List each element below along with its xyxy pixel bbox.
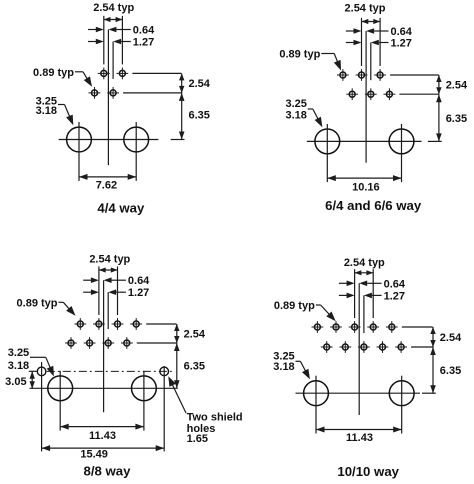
Q3 8/8 way contact hole bottom row 2 xyxy=(84,337,96,349)
Q3 8/8 way label 0.89 typ xyxy=(17,297,58,309)
Q1 4/4 way dim line 2.54 typ with arrows xyxy=(104,17,123,22)
Q4 10/10 way contact hole top row 4 xyxy=(367,321,379,333)
Q2 6/4 and 6/6 way label 3.18 xyxy=(285,109,306,121)
Q4 10/10 way contact hole top row 2 xyxy=(330,321,342,333)
svg-text:1.27: 1.27 xyxy=(128,287,149,299)
Q2 6/4 and 6/6 way contact hole bottom row 3 xyxy=(384,88,396,100)
svg-text:6.35: 6.35 xyxy=(184,361,205,373)
Q4 10/10 way dim 6.35 xyxy=(430,347,436,393)
Q2 6/4 and 6/6 way circle centerline horizontal xyxy=(307,140,422,142)
svg-text:2.54 typ: 2.54 typ xyxy=(344,257,385,269)
Q3 shield hole left xyxy=(37,367,46,376)
Q2 6/4 and 6/6 way mounting hole left xyxy=(315,129,340,154)
svg-text:1.27: 1.27 xyxy=(391,38,412,50)
svg-text:0.64: 0.64 xyxy=(391,26,413,38)
Q3 8/8 way label 2.54 typ xyxy=(89,253,130,265)
svg-text:3.05: 3.05 xyxy=(5,376,26,388)
Q1 4/4 way circle centerline horizontal xyxy=(59,139,159,141)
Q2 6/4 and 6/6 way mounting hole right xyxy=(389,129,414,154)
Q1 4/4 way dim 0.64 left arrow xyxy=(88,27,104,33)
Q1 4/4 way bottom row extension line to right xyxy=(123,92,181,94)
svg-text:0.64: 0.64 xyxy=(128,275,150,287)
Q4 10/10 way contact hole bottom row 1 xyxy=(321,341,333,353)
svg-text:3.18: 3.18 xyxy=(8,360,29,372)
svg-text:1.27: 1.27 xyxy=(133,37,154,49)
Q1 4/4 way label 2.54 right xyxy=(189,78,211,90)
Q2 6/4 and 6/6 way extension line D (hole column) xyxy=(379,18,381,66)
Q3 8/8 way mounting hole left xyxy=(48,376,73,401)
Q1 4/4 way leader 0.89 typ xyxy=(75,72,92,87)
Q3 8/8 way right circle vertical centerline xyxy=(143,371,145,431)
Q3 8/8 way caption 8/8 way xyxy=(84,463,132,478)
Q4 10/10 way label 11.43 xyxy=(346,432,373,444)
Q4 10/10 way label 3.25 xyxy=(273,350,294,362)
svg-text:2.54 typ: 2.54 typ xyxy=(89,253,130,265)
Q1 4/4 way dim 1.27 right arrow and leader xyxy=(113,39,131,45)
Q2 6/4 and 6/6 way label 6.35 xyxy=(446,113,467,125)
Q4 10/10 way extension line D (hole column) xyxy=(372,269,374,318)
Q1 4/4 way contact hole bottom row 1 xyxy=(89,87,101,99)
Q2 6/4 and 6/6 way right circle vertical centerline xyxy=(401,124,403,182)
Q3 shield hole left extension line xyxy=(41,362,43,451)
Q4 10/10 way extension line A (hole column) xyxy=(354,269,356,318)
Q3 8/8 way label 1.27 xyxy=(128,287,149,299)
Q1 4/4 way label 6.35 xyxy=(189,110,210,122)
Q2 6/4 and 6/6 way dim 1.27 left arrow xyxy=(346,40,362,46)
svg-text:4/4 way: 4/4 way xyxy=(97,200,145,215)
Q4 10/10 way bottom row extension line to right xyxy=(411,346,433,348)
Q3 8/8 way circle centerline horizontal xyxy=(30,387,178,389)
Q2 6/4 and 6/6 way label 2.54 right xyxy=(446,80,468,92)
svg-text:6/4 and 6/6 way: 6/4 and 6/6 way xyxy=(325,198,422,213)
Q3 8/8 way leader 0.89 typ xyxy=(59,302,76,316)
Q4 10/10 way label 6.35 xyxy=(440,365,461,377)
Q2 6/4 and 6/6 way dim 2.54 row spacing xyxy=(436,75,441,94)
Q1 4/4 way extension line A (hole column) xyxy=(103,16,105,65)
Q4 10/10 way extension line C (bottom hole column) xyxy=(363,295,365,333)
Q1 4/4 way label 3.18 xyxy=(36,105,57,117)
svg-text:10.16: 10.16 xyxy=(352,181,380,193)
Q1 4/4 way caption 4/4 way xyxy=(97,200,145,215)
Q2 6/4 and 6/6 way extension line A (hole column) xyxy=(361,18,363,66)
svg-text:15.49: 15.49 xyxy=(80,449,108,461)
Q2 6/4 and 6/6 way dim 1.27 right arrow and leader xyxy=(371,40,389,46)
Q4 10/10 way left circle vertical centerline xyxy=(315,376,317,434)
Q4 10/10 way leader 3.25/3.18 xyxy=(296,361,310,379)
Q4 10/10 way label 0.89 typ xyxy=(274,300,315,312)
Q1 4/4 way label 1.27 xyxy=(133,37,154,49)
Q3 label 15.49 xyxy=(80,449,108,461)
svg-text:0.89 typ: 0.89 typ xyxy=(33,67,74,79)
Q4 10/10 way right circle vertical centerline xyxy=(401,376,403,434)
svg-text:Two shield: Two shield xyxy=(187,412,243,424)
Q4 10/10 way label 3.18 xyxy=(273,361,294,373)
svg-text:3.18: 3.18 xyxy=(36,105,57,117)
Q1 4/4 way dim 0.64 right arrow and leader xyxy=(108,27,130,33)
Q3 8/8 way dim 6.35 xyxy=(174,343,180,388)
Q3 8/8 way label 3.18 xyxy=(8,360,29,372)
svg-text:6.35: 6.35 xyxy=(446,113,467,125)
Q2 6/4 and 6/6 way dim line 2.54 typ with arrows xyxy=(362,19,381,24)
svg-text:2.54: 2.54 xyxy=(189,78,211,90)
svg-text:1.65: 1.65 xyxy=(187,433,208,445)
Q2 6/4 and 6/6 way dim 0.64 right arrow and leader xyxy=(366,28,388,34)
Q2 6/4 and 6/6 way left circle vertical centerline xyxy=(326,124,328,182)
Q4 10/10 way label 2.54 right xyxy=(440,332,462,344)
Q1 4/4 way extension line C (bottom hole column) xyxy=(112,42,114,79)
Q4 10/10 way leader 0.89 typ xyxy=(316,305,336,321)
Q1 4/4 way dim 6.35 bottom reference tick xyxy=(171,139,185,141)
Q3 8/8 way mounting hole right xyxy=(132,376,157,401)
Q4 10/10 way dim 0.64 left arrow xyxy=(339,281,355,287)
svg-text:2.54: 2.54 xyxy=(440,332,462,344)
svg-text:11.43: 11.43 xyxy=(346,432,373,444)
svg-text:2.54: 2.54 xyxy=(184,329,206,341)
Q3 8/8 way dim 0.64 right arrow and leader xyxy=(104,277,126,283)
Q3 note Two shield holes xyxy=(187,412,243,446)
Q1 4/4 way dim 1.27 left arrow xyxy=(88,39,104,45)
svg-text:0.89 typ: 0.89 typ xyxy=(17,297,58,309)
svg-text:3.18: 3.18 xyxy=(285,109,306,121)
Q1 4/4 way contact hole top row 2 xyxy=(117,68,129,80)
Q3 8/8 way dim line 2.54 typ with arrows xyxy=(99,267,118,272)
Q4 10/10 way dim 6.35 bottom reference tick xyxy=(422,392,436,394)
Q1 4/4 way mounting hole left xyxy=(67,127,92,152)
Q3 8/8 way contact hole top row 1 xyxy=(74,318,86,330)
Q4 10/10 way contact hole top row 1 xyxy=(312,321,324,333)
svg-text:0.89 typ: 0.89 typ xyxy=(274,300,315,312)
Q1 4/4 way mounting hole right xyxy=(124,127,149,152)
Q1 4/4 way contact hole top row 1 xyxy=(98,68,110,80)
Q3 8/8 way contact hole top row 4 xyxy=(130,318,142,330)
Q2 6/4 and 6/6 way contact hole top row 2 xyxy=(356,69,368,81)
Q3 8/8 way extension line D (hole column) xyxy=(117,266,119,315)
Q3 dim 15.49 xyxy=(42,445,165,451)
Q4 10/10 way contact hole bottom row 4 xyxy=(377,341,389,353)
Q3 dim 3.05 top tick xyxy=(29,370,37,372)
Q4 10/10 way dim 1.27 right arrow and leader xyxy=(364,293,382,299)
svg-text:0.64: 0.64 xyxy=(133,25,155,37)
Q3 8/8 way contact hole top row 3 xyxy=(112,318,124,330)
svg-text:3.18: 3.18 xyxy=(273,361,294,373)
Q4 10/10 way dim line 2.54 typ with arrows xyxy=(355,270,374,275)
svg-text:10/10 way: 10/10 way xyxy=(337,464,399,479)
Q2 6/4 and 6/6 way vertical centerline xyxy=(365,31,367,163)
svg-text:11.43: 11.43 xyxy=(89,430,116,442)
Q4 10/10 way label 2.54 typ xyxy=(344,257,385,269)
Q1 4/4 way dim 6.35 xyxy=(179,93,185,140)
Q4 10/10 way dim 0.64 right arrow and leader xyxy=(359,281,381,287)
Q2 6/4 and 6/6 way contact hole bottom row 1 xyxy=(346,88,358,100)
Q1 4/4 way label 2.54 typ xyxy=(93,2,134,14)
Q4 10/10 way contact hole top row 5 xyxy=(386,321,398,333)
Q1 4/4 way leader 3.25/3.18 xyxy=(58,105,73,126)
Q4 10/10 way contact hole bottom row 2 xyxy=(339,341,351,353)
Q3 8/8 way label 11.43 xyxy=(89,430,116,442)
Q2 6/4 and 6/6 way leader 3.25/3.18 xyxy=(308,109,323,127)
Q1 4/4 way contact hole bottom row 2 xyxy=(107,87,119,99)
Q2 6/4 and 6/6 way label 1.27 xyxy=(391,38,412,50)
svg-text:1.27: 1.27 xyxy=(384,290,405,302)
svg-text:0.89 typ: 0.89 typ xyxy=(279,49,320,61)
svg-text:0.64: 0.64 xyxy=(384,278,406,290)
Q3 8/8 way contact hole bottom row 4 xyxy=(121,337,133,349)
Q3 leader Two shield holes xyxy=(168,376,186,413)
Q3 8/8 way contact hole bottom row 1 xyxy=(65,337,77,349)
Q4 10/10 way circle centerline horizontal xyxy=(296,392,421,394)
Q4 10/10 way dim 11.43 between mounting holes xyxy=(316,427,402,433)
Q4 10/10 way contact hole bottom row 3 xyxy=(358,341,370,353)
Q2 6/4 and 6/6 way bottom row extension line to right xyxy=(399,93,438,95)
Q1 4/4 way top row extension line to right xyxy=(132,72,181,74)
Q4 10/10 way mounting hole left xyxy=(304,381,329,406)
Q3 8/8 way label 3.25 xyxy=(8,347,29,359)
Q2 6/4 and 6/6 way label 3.25 xyxy=(285,98,306,110)
svg-text:2.54: 2.54 xyxy=(446,80,468,92)
Q3 8/8 way label 0.64 xyxy=(128,275,150,287)
Q1 4/4 way vertical centerline xyxy=(107,30,109,166)
Q2 6/4 and 6/6 way dim 10.16 between mounting holes xyxy=(327,175,401,181)
Q3 8/8 way contact hole top row 2 xyxy=(93,318,105,330)
Q2 6/4 and 6/6 way label 10.16 xyxy=(352,181,380,193)
Q3 8/8 way dim 2.54 row spacing xyxy=(174,324,179,343)
Q2 6/4 and 6/6 way extension line C (bottom hole column) xyxy=(370,43,372,81)
Q3 8/8 way contact hole bottom row 3 xyxy=(102,337,114,349)
Q4 10/10 way label 0.64 xyxy=(384,278,406,290)
Q2 6/4 and 6/6 way dim 6.35 bottom reference tick xyxy=(428,140,442,142)
Q4 10/10 way dim 2.54 row spacing xyxy=(430,327,435,347)
Q3 shield hole right extension line xyxy=(163,366,165,451)
Q1 4/4 way right circle vertical centerline xyxy=(135,122,137,181)
Q2 6/4 and 6/6 way label 0.64 xyxy=(391,26,413,38)
Q4 10/10 way caption 10/10 way xyxy=(337,464,399,479)
Q2 6/4 and 6/6 way caption 6/4 and 6/6 way xyxy=(325,198,422,213)
Q4 10/10 way vertical centerline xyxy=(358,283,360,415)
Q3 dash-dot shield centerline xyxy=(47,370,175,372)
Q3 8/8 way dim 11.43 between mounting holes xyxy=(60,424,144,430)
Q1 4/4 way dim 7.62 between mounting holes xyxy=(79,174,136,180)
Q4 10/10 way label 1.27 xyxy=(384,290,405,302)
Q4 10/10 way contact hole top row 3 xyxy=(349,321,361,333)
svg-text:8/8 way: 8/8 way xyxy=(84,463,132,478)
Q3 8/8 way left circle vertical centerline xyxy=(59,371,61,431)
Q3 8/8 way extension line C (bottom hole column) xyxy=(107,292,109,329)
Q3 8/8 way label 2.54 right xyxy=(184,329,206,341)
Q3 8/8 way dim 1.27 left arrow xyxy=(83,289,99,295)
Q2 6/4 and 6/6 way contact hole top row 3 xyxy=(374,69,386,81)
svg-text:3.25: 3.25 xyxy=(8,347,29,359)
Q2 6/4 and 6/6 way top row extension line to right xyxy=(390,74,439,76)
Q4 10/10 way mounting hole right xyxy=(389,381,414,406)
Q3 8/8 way bottom row extension line to right xyxy=(137,342,177,344)
Q4 10/10 way top row extension line to right xyxy=(402,326,433,328)
svg-text:2.54 typ: 2.54 typ xyxy=(345,3,386,15)
Q1 4/4 way dim 2.54 row spacing xyxy=(179,73,184,93)
Q3 8/8 way dim 0.64 left arrow xyxy=(83,277,99,283)
svg-text:6.35: 6.35 xyxy=(440,365,461,377)
Q3 8/8 way vertical centerline xyxy=(103,280,105,412)
Q3 8/8 way dim 1.27 right arrow and leader xyxy=(108,289,126,295)
Q3 shield hole right xyxy=(160,367,169,376)
Q3 label 3.05 xyxy=(5,376,26,388)
svg-text:6.35: 6.35 xyxy=(189,110,210,122)
Q3 8/8 way leader 3.25/3.18 xyxy=(30,357,54,376)
svg-text:3.25: 3.25 xyxy=(285,98,306,110)
Q3 8/8 way extension line A (hole column) xyxy=(98,266,100,315)
svg-text:7.62: 7.62 xyxy=(96,179,117,191)
Q2 6/4 and 6/6 way dim 6.35 xyxy=(436,94,442,141)
Q1 4/4 way label 3.25 xyxy=(36,95,57,107)
Q2 6/4 and 6/6 way dim 0.64 left arrow xyxy=(346,28,362,34)
Q2 6/4 and 6/6 way label 2.54 typ xyxy=(345,3,386,15)
Q3 8/8 way top row extension line to right xyxy=(146,323,176,325)
Q4 10/10 way dim 1.27 left arrow xyxy=(339,293,355,299)
Q1 4/4 way label 0.64 xyxy=(133,25,155,37)
Q4 10/10 way contact hole bottom row 5 xyxy=(395,341,407,353)
Q2 6/4 and 6/6 way contact hole top row 1 xyxy=(337,69,349,81)
Q2 6/4 and 6/6 way leader 0.89 typ xyxy=(321,54,341,71)
Q3 8/8 way label 6.35 xyxy=(184,361,205,373)
Q1 4/4 way label 7.62 xyxy=(96,179,117,191)
Q1 4/4 way label 0.89 typ xyxy=(33,67,74,79)
Q1 4/4 way extension line D (hole column) xyxy=(121,16,123,65)
Q3 dim 3.05 xyxy=(30,371,35,388)
Q1 4/4 way left circle vertical centerline xyxy=(78,122,80,181)
Q2 6/4 and 6/6 way contact hole bottom row 2 xyxy=(365,88,377,100)
Q2 6/4 and 6/6 way label 0.89 typ xyxy=(279,49,320,61)
svg-text:2.54 typ: 2.54 typ xyxy=(93,2,134,14)
